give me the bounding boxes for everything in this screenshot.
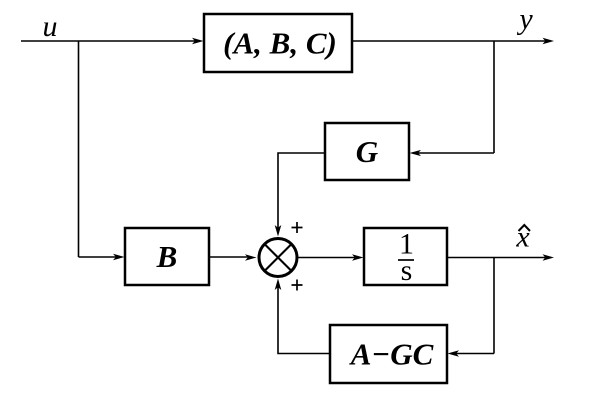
- wire into G: [417, 152, 494, 154]
- plus sign bottom: [292, 280, 303, 291]
- wire x-hat output: [447, 257, 546, 259]
- wire B to summing junction: [209, 256, 249, 258]
- arrowhead into (A,B,C): [192, 38, 204, 45]
- arrowhead into B: [113, 254, 125, 261]
- plus sign top: [292, 222, 303, 233]
- arrowhead into summing junction bottom: [275, 279, 282, 291]
- fraction bar: [398, 259, 414, 261]
- wire y output: [352, 40, 546, 42]
- wire A-GC to summing junction: [278, 286, 330, 354]
- block B: [125, 228, 209, 285]
- svg-text:(A, B, C): (A, B, C): [223, 26, 337, 61]
- arrowhead into 1/s: [352, 254, 364, 261]
- block 1/s: [364, 228, 447, 285]
- hat accent over x: [519, 225, 531, 231]
- wire u input to (A,B,C): [21, 40, 196, 42]
- wire u branch down: [78, 41, 80, 257]
- wire x-hat branch down: [493, 258, 495, 354]
- svg-text:y: y: [516, 3, 533, 36]
- block A-GC: [330, 325, 447, 383]
- arrowhead x-hat output: [543, 254, 555, 261]
- arrowhead into summing junction left: [245, 254, 257, 261]
- arrowhead y output: [543, 38, 555, 45]
- wire G to summing junction: [278, 153, 325, 229]
- wire y branch down: [493, 41, 495, 153]
- arrowhead into A-GC: [448, 350, 460, 357]
- wire into B: [79, 256, 118, 258]
- arrowhead into summing junction top: [275, 225, 282, 237]
- svg-text:u: u: [43, 10, 58, 43]
- summing junction: [259, 239, 297, 277]
- arrowhead into G: [410, 150, 422, 156]
- svg-text:s: s: [401, 254, 413, 287]
- svg-text:B: B: [156, 239, 178, 274]
- svg-text:A−GC: A−GC: [349, 337, 434, 372]
- wire into A-GC: [455, 353, 494, 355]
- block (A,B,C): [204, 14, 352, 72]
- block G: [325, 123, 409, 180]
- svg-text:G: G: [356, 134, 379, 169]
- wire summing junction to 1/s: [299, 257, 357, 259]
